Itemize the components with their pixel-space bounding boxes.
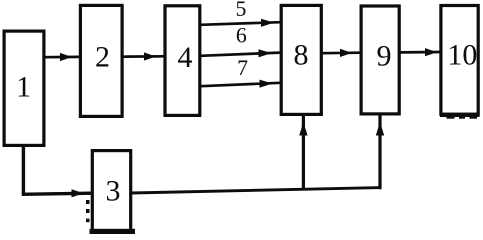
- label 1: [16, 70, 31, 103]
- wire 2 to 4: [123, 52, 164, 60]
- svg-text:3: 3: [106, 175, 121, 208]
- label 10: [447, 39, 477, 72]
- block 3: [92, 151, 130, 233]
- wire 1 to 2: [44, 53, 79, 61]
- wire 4 to 8 line 6: [201, 49, 281, 57]
- svg-text:8: 8: [294, 39, 309, 72]
- block 4: [165, 6, 200, 116]
- block 1: [4, 31, 44, 145]
- wire rail to block 3: [22, 189, 91, 197]
- label 3: [106, 175, 121, 208]
- wire down from block 1: [22, 146, 25, 195]
- wire riser up into block 8: [299, 116, 307, 190]
- wire rail from block 3 to risers: [132, 188, 382, 193]
- svg-text:9: 9: [377, 39, 392, 72]
- label 5: [236, 0, 247, 21]
- label 8: [294, 39, 309, 72]
- heavy bottom edge of block 3: [90, 229, 136, 234]
- svg-text:4: 4: [178, 41, 193, 74]
- wire 4 to 8 line 5: [201, 19, 281, 27]
- block 8: [281, 5, 321, 114]
- label 7: [237, 56, 248, 80]
- label 6: [236, 23, 247, 47]
- wire 8 to 9: [322, 49, 360, 57]
- label 9: [377, 39, 392, 72]
- wire riser up into block 9: [376, 115, 384, 190]
- label 2: [95, 41, 110, 74]
- svg-text:6: 6: [236, 23, 247, 47]
- block 10: [441, 6, 478, 115]
- block 9: [361, 6, 399, 114]
- wire 9 to 10: [400, 48, 440, 56]
- svg-text:1: 1: [16, 70, 31, 103]
- tick marks left of block 3: [86, 200, 90, 222]
- svg-text:5: 5: [236, 0, 247, 21]
- wire 4 to 8 line 7: [201, 80, 281, 88]
- heavy bottom edge of block 10: [440, 113, 480, 119]
- svg-text:2: 2: [95, 41, 110, 74]
- svg-text:7: 7: [237, 56, 248, 80]
- block 2: [80, 5, 122, 116]
- label 4: [178, 41, 193, 74]
- svg-text:10: 10: [447, 39, 477, 72]
